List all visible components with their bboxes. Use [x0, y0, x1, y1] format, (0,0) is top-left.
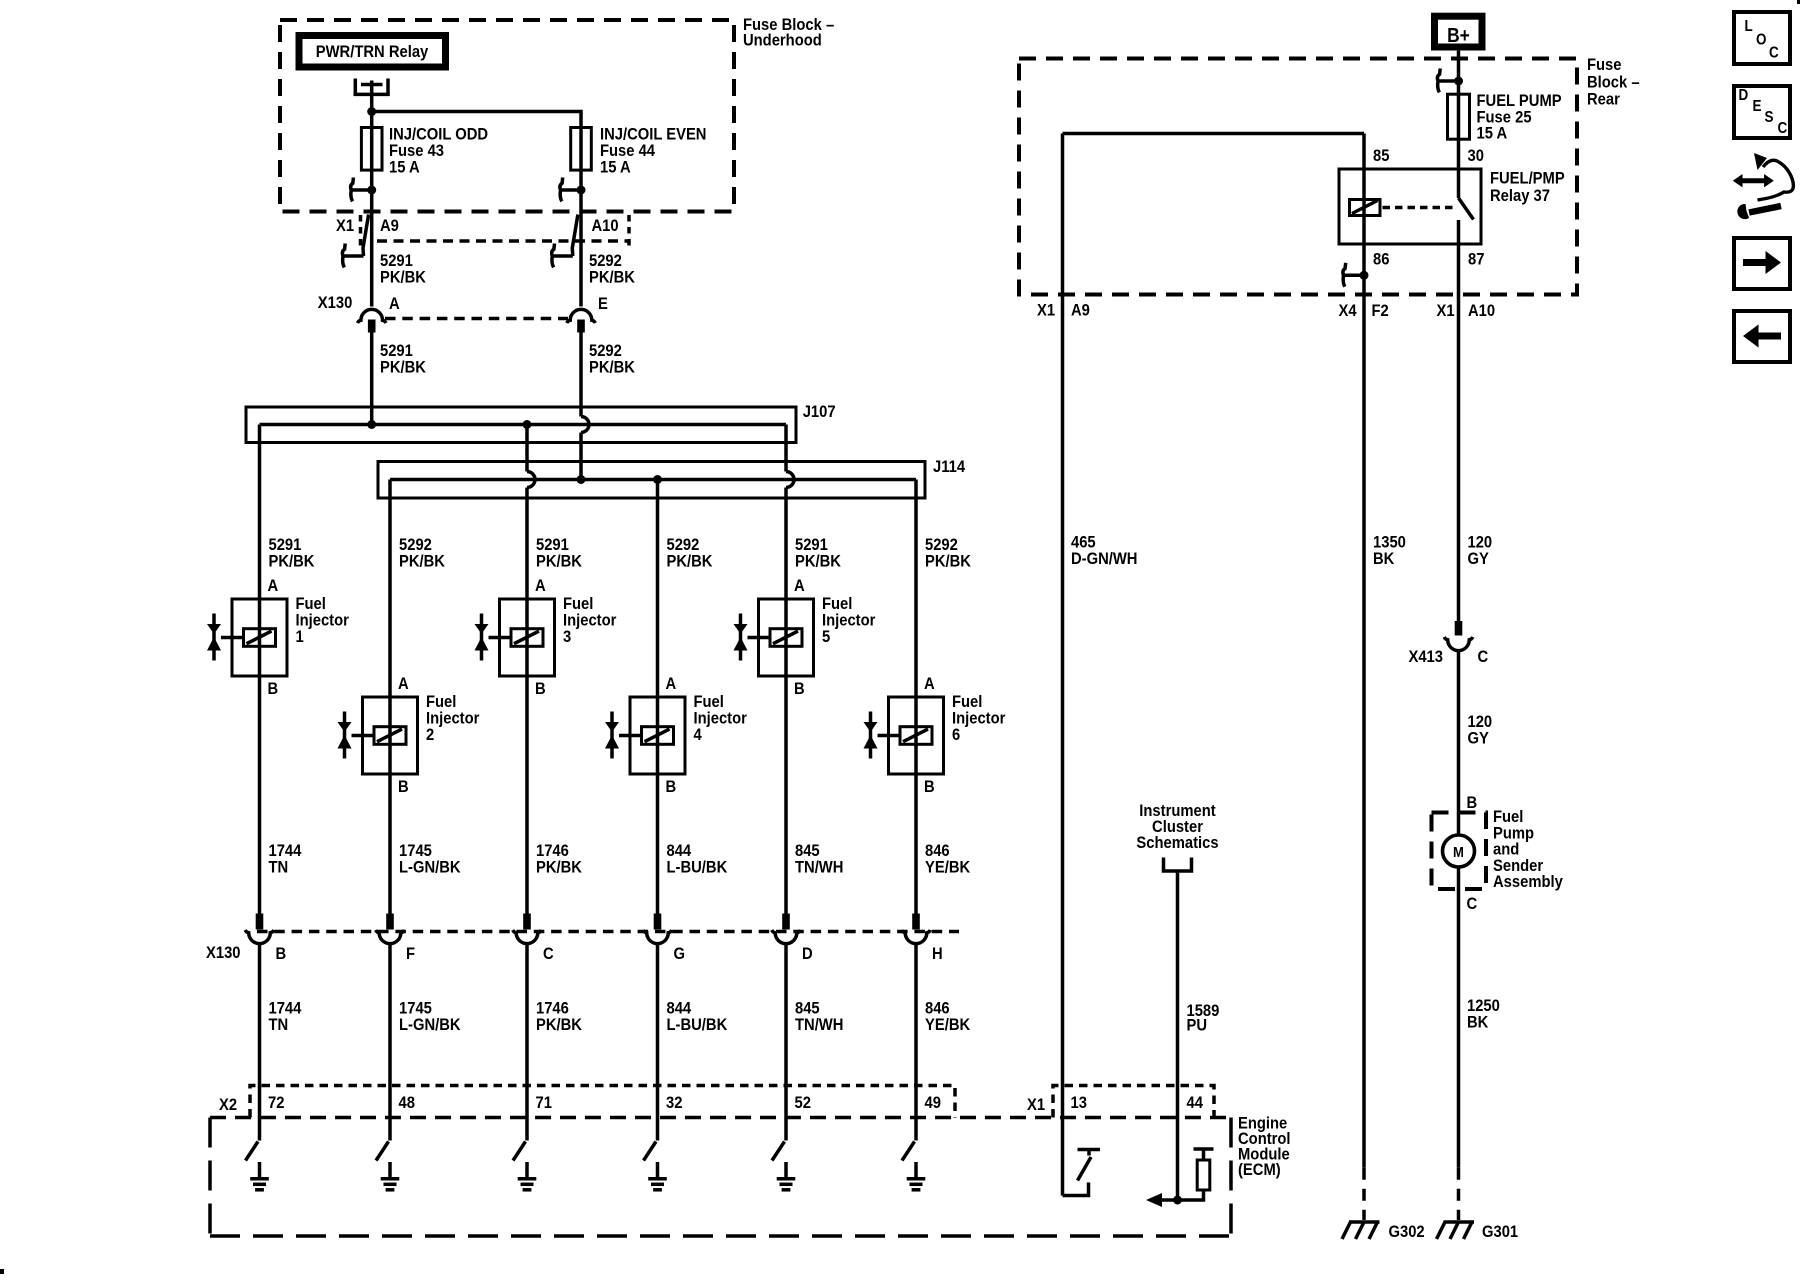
svg-text:13: 13: [1071, 1094, 1088, 1112]
fuse F44 (INJ/COIL EVEN): [571, 128, 592, 171]
svg-text:O: O: [1756, 32, 1766, 49]
svg-text:X1: X1: [1037, 302, 1055, 320]
page corner artifacts: [1797, 0, 1800, 4]
fuse block - underhood (dashed box): [280, 20, 734, 212]
svg-text:J107: J107: [803, 403, 836, 421]
svg-text:1350: 1350: [1373, 534, 1406, 552]
svg-text:72: 72: [268, 1094, 285, 1112]
svg-text:Fuel: Fuel: [426, 693, 456, 711]
wire: relay 87 down (120 GY): [1457, 244, 1461, 621]
svg-text:TN: TN: [268, 1016, 288, 1034]
wire: X130 F to ECM pin 48: [388, 944, 392, 1141]
svg-text:465: 465: [1071, 534, 1096, 552]
svg-text:5291: 5291: [380, 342, 413, 360]
dashed connector line X130 bottom: [257, 930, 959, 934]
svg-text:C: C: [1466, 895, 1477, 913]
wire: X130 B to ECM pin 72: [258, 944, 262, 1141]
svg-text:PK/BK: PK/BK: [399, 553, 445, 571]
ECM injector driver 3 (switch): [513, 1142, 526, 1161]
svg-text:A: A: [924, 675, 935, 693]
svg-text:B: B: [794, 680, 805, 698]
ECM pin 13 internal switch: [1063, 1183, 1089, 1196]
connector X130 pin C: [523, 914, 531, 930]
svg-text:A10: A10: [592, 217, 619, 235]
svg-text:X1: X1: [1027, 1096, 1045, 1114]
wire: relay 86 down (1350 BK): [1362, 244, 1366, 1168]
svg-text:1250: 1250: [1467, 997, 1500, 1015]
ECM connector X1 pin row (dashed): [1053, 1086, 1214, 1118]
svg-text:6: 6: [952, 726, 960, 744]
wire: X130 D to ECM pin 52: [784, 944, 788, 1141]
svg-text:B: B: [924, 778, 935, 796]
svg-text:PU: PU: [1186, 1017, 1207, 1035]
svg-text:GY: GY: [1467, 550, 1489, 568]
svg-text:S: S: [1764, 109, 1773, 126]
svg-text:3: 3: [563, 628, 571, 646]
svg-text:Relay 37: Relay 37: [1490, 187, 1550, 205]
svg-text:C: C: [1769, 45, 1779, 62]
svg-text:120: 120: [1467, 713, 1492, 731]
svg-text:Schematics: Schematics: [1136, 834, 1218, 852]
svg-text:B+: B+: [1447, 24, 1470, 46]
svg-text:A10: A10: [1468, 302, 1495, 320]
svg-text:PK/BK: PK/BK: [925, 553, 971, 571]
svg-text:YE/BK: YE/BK: [925, 1016, 971, 1034]
svg-text:L-BU/BK: L-BU/BK: [666, 1016, 727, 1034]
fuse block - rear (dashed box): [1019, 59, 1577, 295]
svg-text:5: 5: [822, 628, 830, 646]
relay contact symbol (cup + T terminal): [354, 79, 390, 95]
ECM injector driver 5 (switch): [772, 1142, 785, 1161]
svg-text:5291: 5291: [268, 536, 301, 554]
fuel injector 5: [759, 599, 814, 676]
svg-text:Injector: Injector: [694, 710, 747, 728]
ground (ECM driver 5): [784, 1162, 788, 1178]
connector X130 pin E (cup + pin): [567, 309, 596, 323]
svg-text:1746: 1746: [536, 1000, 569, 1018]
connector X130 pin B: [256, 914, 264, 930]
fuel injector 3: [500, 599, 555, 676]
svg-text:C: C: [543, 945, 554, 963]
svg-text:15 A: 15 A: [600, 159, 631, 177]
engine control module box (dashed): [210, 1116, 1231, 1120]
svg-text:120: 120: [1467, 534, 1492, 552]
svg-text:PK/BK: PK/BK: [536, 553, 582, 571]
svg-text:4: 4: [694, 726, 702, 744]
clip below B+: [1437, 69, 1458, 93]
svg-text:PK/BK: PK/BK: [666, 553, 712, 571]
svg-text:5292: 5292: [666, 536, 699, 554]
fuel injector 6: [889, 697, 944, 774]
svg-text:E: E: [598, 295, 608, 313]
svg-text:TN: TN: [268, 859, 288, 877]
svg-text:D: D: [802, 945, 813, 963]
PWR/TRN Relay (bold box): [299, 36, 446, 68]
svg-text:845: 845: [795, 842, 820, 860]
instrument cluster off-page bracket: [1164, 858, 1192, 872]
junction: 5292 feed on J114: [577, 475, 586, 484]
svg-text:844: 844: [666, 1000, 691, 1018]
svg-text:5291: 5291: [380, 252, 413, 270]
svg-text:FUEL PUMP: FUEL PUMP: [1477, 92, 1562, 110]
svg-text:GY: GY: [1467, 730, 1489, 748]
junction: J107 to injector 3: [523, 420, 532, 429]
svg-text:5291: 5291: [795, 536, 828, 554]
svg-text:Fuse 43: Fuse 43: [389, 142, 444, 160]
sidebar LOC button: [1734, 12, 1790, 64]
svg-text:F: F: [406, 945, 415, 963]
svg-text:INJ/COIL ODD: INJ/COIL ODD: [389, 126, 488, 144]
svg-text:Fuel: Fuel: [1493, 808, 1523, 826]
svg-text:A: A: [267, 577, 278, 595]
wire: J114 to injector 6 to X130-H: [914, 480, 918, 917]
clip under fuse 44: [560, 178, 581, 202]
sidebar route/tools icon: [1741, 178, 1766, 183]
svg-text:71: 71: [536, 1094, 553, 1112]
svg-text:32: 32: [666, 1094, 683, 1112]
ECM pin 44 internal resistor + arrow: [1178, 1149, 1214, 1200]
svg-text:E: E: [1753, 98, 1762, 115]
ground G301: [1444, 1220, 1475, 1224]
wire: X130 G to ECM pin 32: [656, 944, 660, 1141]
svg-text:J114: J114: [933, 458, 965, 476]
relay K37 FUEL/PMP (box): [1339, 169, 1481, 244]
wire: branch through fuse 44 to X130-E: [372, 112, 581, 307]
ECM connector X2 pin row (dashed): [250, 1086, 955, 1118]
svg-text:1744: 1744: [268, 842, 301, 860]
svg-text:PK/BK: PK/BK: [380, 359, 426, 377]
ground (ECM driver 6): [914, 1162, 918, 1178]
svg-text:845: 845: [795, 1000, 820, 1018]
svg-text:L: L: [1744, 18, 1752, 35]
svg-text:D: D: [1739, 87, 1749, 104]
svg-text:F2: F2: [1372, 302, 1389, 320]
svg-text:5292: 5292: [589, 252, 622, 270]
svg-text:TN/WH: TN/WH: [795, 1016, 843, 1034]
svg-text:15 A: 15 A: [1477, 125, 1508, 143]
svg-text:YE/BK: YE/BK: [925, 859, 971, 877]
ground G302: [1349, 1220, 1380, 1224]
connector X413 pin C: [1455, 621, 1463, 636]
svg-text:X130: X130: [206, 944, 241, 962]
svg-text:48: 48: [399, 1094, 416, 1112]
svg-text:846: 846: [925, 842, 950, 860]
svg-text:Fuel: Fuel: [952, 693, 982, 711]
junction node (branch to fuse 44): [367, 107, 376, 116]
svg-text:52: 52: [795, 1094, 812, 1112]
svg-text:86: 86: [1373, 251, 1390, 269]
dashed connector line A9-A10: [377, 239, 629, 243]
svg-text:PWR/TRN Relay: PWR/TRN Relay: [316, 43, 429, 61]
svg-text:B: B: [267, 680, 278, 698]
wire: J107 to injector 1 to X130-B: [258, 425, 262, 917]
ground (ECM driver 4): [656, 1162, 660, 1178]
connector X130 pin F: [386, 914, 394, 930]
svg-text:B: B: [665, 778, 676, 796]
splice pack J107 (box): [246, 407, 796, 443]
svg-text:15 A: 15 A: [389, 159, 420, 177]
svg-text:C: C: [1478, 648, 1489, 666]
relay K37 linkage (dashed): [1383, 206, 1456, 210]
junction: 5291 feed on J107: [367, 420, 376, 429]
ground lead dashes (G301): [1457, 1168, 1461, 1220]
splice J107 bus bar: [260, 423, 787, 427]
junction: J114 to injector 4: [653, 475, 662, 484]
svg-text:A9: A9: [1071, 302, 1090, 320]
wire: B+ through fuse 25 to relay pin 30: [1457, 51, 1461, 169]
clip below relay pin 86: [1343, 263, 1364, 287]
terminal at X1/A9 on wire 5291: [363, 215, 369, 257]
splice J114 bus bar: [390, 478, 916, 482]
svg-text:FUEL/PMP: FUEL/PMP: [1490, 170, 1565, 188]
svg-text:(ECM): (ECM): [1238, 1161, 1281, 1179]
B+ power feed (bold box): [1435, 16, 1483, 47]
svg-text:49: 49: [924, 1094, 941, 1112]
wire: X413 to fuel pump: [1457, 651, 1461, 813]
wire: relay coil column (pin 85 to pin 86): [1362, 134, 1366, 245]
svg-text:Fuse: Fuse: [1587, 56, 1622, 74]
svg-text:A: A: [665, 675, 676, 693]
svg-text:5292: 5292: [589, 342, 622, 360]
svg-text:G302: G302: [1389, 1223, 1425, 1241]
svg-text:PK/BK: PK/BK: [589, 359, 635, 377]
wire: pump to G301 (1250 BK): [1457, 889, 1461, 1168]
svg-text:BK: BK: [1467, 1014, 1489, 1032]
svg-text:2: 2: [426, 726, 434, 744]
svg-text:C: C: [1777, 120, 1787, 137]
svg-text:X413: X413: [1408, 648, 1443, 666]
fuel pump and sender assembly (dashed box): [1432, 813, 1487, 890]
svg-text:G: G: [674, 945, 686, 963]
svg-text:A: A: [794, 577, 805, 595]
separator dashes A10|: [627, 215, 631, 249]
separator dashes X1|A9: [359, 215, 363, 249]
connector X130 pin H: [912, 914, 920, 930]
svg-text:L-GN/BK: L-GN/BK: [399, 1016, 461, 1034]
wire: 465 D-GN/WH down to ECM pin 13: [1061, 134, 1065, 1196]
svg-text:PK/BK: PK/BK: [536, 859, 582, 877]
ground (ECM driver 2): [388, 1162, 392, 1178]
svg-text:B: B: [276, 945, 287, 963]
svg-text:844: 844: [666, 842, 691, 860]
svg-text:Rear: Rear: [1587, 91, 1620, 109]
fuel injector 4: [630, 697, 685, 774]
svg-text:PK/BK: PK/BK: [268, 553, 314, 571]
svg-text:Injector: Injector: [563, 612, 616, 630]
svg-text:Injector: Injector: [296, 612, 349, 630]
svg-text:1744: 1744: [268, 1000, 301, 1018]
splice pack J114 (box): [378, 462, 925, 499]
svg-text:30: 30: [1467, 147, 1484, 165]
svg-text:G301: G301: [1482, 1223, 1518, 1241]
sidebar next-page button: [1734, 238, 1790, 289]
svg-text:Injector: Injector: [822, 612, 875, 630]
svg-text:Fuel: Fuel: [296, 595, 326, 613]
svg-text:PK/BK: PK/BK: [589, 269, 635, 287]
ground (ECM driver 1): [258, 1162, 262, 1178]
svg-text:B: B: [398, 778, 409, 796]
svg-text:1746: 1746: [536, 842, 569, 860]
svg-text:X1: X1: [336, 217, 354, 235]
svg-text:1745: 1745: [399, 1000, 432, 1018]
svg-text:Fuel: Fuel: [822, 595, 852, 613]
relay K37 coil: [1350, 200, 1381, 216]
svg-text:5291: 5291: [536, 536, 569, 554]
svg-text:A: A: [398, 675, 409, 693]
wire 5291 X130-A to splice J107: [370, 333, 374, 425]
svg-text:Fuel: Fuel: [563, 595, 593, 613]
ECM injector driver 4 (switch): [644, 1142, 657, 1161]
svg-text:B: B: [1466, 794, 1477, 812]
svg-text:TN/WH: TN/WH: [795, 859, 843, 877]
svg-text:INJ/COIL EVEN: INJ/COIL EVEN: [600, 126, 707, 144]
svg-text:A: A: [535, 577, 546, 595]
ECM injector driver 6 (switch): [902, 1142, 915, 1161]
wire 5292 X130-E to splice J114 (hops J107 bus): [579, 333, 583, 417]
svg-text:M: M: [1453, 843, 1464, 860]
ground (ECM driver 3): [525, 1162, 529, 1178]
fuse F25 (FUEL PUMP): [1448, 94, 1470, 139]
sidebar DESC button: [1734, 86, 1790, 138]
terminal at X1/A10 on wire 5292: [572, 215, 578, 257]
svg-text:A: A: [389, 295, 400, 313]
fuel pump motor M: [1457, 813, 1461, 836]
wire: X130 C to ECM pin 71: [525, 944, 529, 1141]
svg-text:Underhood: Underhood: [743, 32, 822, 50]
sidebar prev-page button: [1734, 311, 1790, 362]
svg-text:5292: 5292: [925, 536, 958, 554]
fuse F43 (INJ/COIL ODD): [361, 128, 382, 171]
svg-text:X2: X2: [219, 1096, 237, 1114]
svg-text:A9: A9: [380, 217, 399, 235]
svg-text:L-GN/BK: L-GN/BK: [399, 859, 461, 877]
ECM injector driver 1 (switch): [246, 1142, 259, 1161]
svg-text:PK/BK: PK/BK: [380, 269, 426, 287]
svg-text:85: 85: [1373, 147, 1390, 165]
svg-text:PK/BK: PK/BK: [536, 1016, 582, 1034]
svg-text:Injector: Injector: [426, 710, 479, 728]
svg-text:D-GN/WH: D-GN/WH: [1071, 550, 1137, 568]
connector X130 pin A (cup + pin): [357, 309, 386, 323]
svg-text:Block –: Block –: [1587, 73, 1640, 91]
svg-text:and: and: [1493, 841, 1519, 859]
dashed connector line X130 top: [385, 317, 568, 321]
wire: J107 to injector 5 to X130-D (hops J114 bus): [784, 425, 788, 472]
svg-text:B: B: [535, 680, 546, 698]
wire: 1589 PU to ECM pin 44: [1176, 871, 1180, 1200]
fuel injector 1: [232, 599, 287, 676]
wire: 465 feed horizontal to relay coil: [1063, 132, 1365, 136]
svg-text:1: 1: [296, 628, 304, 646]
svg-text:Injector: Injector: [952, 710, 1005, 728]
svg-text:X130: X130: [318, 294, 353, 312]
svg-text:PK/BK: PK/BK: [795, 553, 841, 571]
svg-text:5292: 5292: [399, 536, 432, 554]
wire: J107 to injector 3 to X130-C (hops J114 bus): [525, 425, 529, 472]
wire: J114 to injector 4 to X130-G: [656, 480, 660, 917]
wire: relay output through fuse 43 to X130-A: [370, 81, 374, 307]
fuel injector 2: [363, 697, 418, 774]
connector X130 pin G: [654, 914, 662, 930]
svg-text:Assembly: Assembly: [1493, 873, 1563, 891]
wire: X130 H to ECM pin 49: [914, 944, 918, 1141]
svg-text:44: 44: [1186, 1094, 1203, 1112]
wire: J114 to injector 2 to X130-F: [388, 480, 392, 917]
relay K37 switch: [1457, 169, 1461, 198]
svg-text:Fuse 44: Fuse 44: [600, 142, 655, 160]
svg-text:X1: X1: [1437, 302, 1455, 320]
connector X130 pin D: [782, 914, 790, 930]
svg-text:L-BU/BK: L-BU/BK: [666, 859, 727, 877]
svg-text:Fuel: Fuel: [694, 693, 724, 711]
clip under fuse 43: [351, 178, 372, 202]
svg-text:H: H: [932, 945, 943, 963]
ground lead dashes (G302): [1362, 1168, 1366, 1220]
svg-text:87: 87: [1468, 251, 1485, 269]
svg-text:1745: 1745: [399, 842, 432, 860]
ECM injector driver 2 (switch): [376, 1142, 389, 1161]
svg-text:846: 846: [925, 1000, 950, 1018]
svg-text:X4: X4: [1339, 302, 1357, 320]
svg-text:BK: BK: [1373, 550, 1395, 568]
